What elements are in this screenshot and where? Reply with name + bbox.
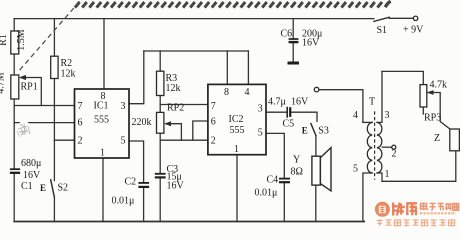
svg-text:3: 3 <box>121 101 126 112</box>
svg-text:7: 7 <box>211 101 216 112</box>
svg-text:6: 6 <box>211 117 216 128</box>
svg-text:0.01μ: 0.01μ <box>255 188 278 199</box>
svg-text:1.5M: 1.5M <box>16 29 27 51</box>
svg-text:IC1: IC1 <box>94 101 109 112</box>
svg-text:3: 3 <box>258 104 263 115</box>
svg-text:680μ: 680μ <box>21 158 41 169</box>
svg-text:4.7μ: 4.7μ <box>268 97 286 108</box>
svg-text:5: 5 <box>353 164 358 175</box>
svg-text:RP1: RP1 <box>21 82 38 93</box>
svg-text:12k: 12k <box>61 69 76 80</box>
svg-text:C4: C4 <box>267 175 279 186</box>
svg-text:0.01μ: 0.01μ <box>112 196 135 207</box>
svg-text:4.7M: 4.7M <box>0 72 7 94</box>
svg-text:4: 4 <box>245 87 250 98</box>
svg-text:1: 1 <box>100 148 105 159</box>
svg-text:555: 555 <box>94 115 109 126</box>
svg-text:2: 2 <box>78 136 83 147</box>
svg-text:Y: Y <box>293 155 300 166</box>
svg-text:IC2: IC2 <box>229 114 244 125</box>
svg-text:5: 5 <box>121 136 126 147</box>
svg-text:6: 6 <box>78 118 83 129</box>
svg-text:1: 1 <box>234 144 239 155</box>
svg-text:C1: C1 <box>21 181 33 192</box>
svg-text:R2: R2 <box>61 58 73 69</box>
svg-text:E: E <box>302 126 308 136</box>
svg-text:16V: 16V <box>302 38 320 49</box>
svg-text:12k: 12k <box>166 83 181 94</box>
svg-text:8: 8 <box>224 87 229 98</box>
svg-text:1: 1 <box>385 169 390 180</box>
svg-text:+ 9V: + 9V <box>403 25 424 36</box>
svg-text:Z: Z <box>434 133 440 144</box>
svg-text:E: E <box>40 183 46 193</box>
svg-text:R1: R1 <box>0 34 9 46</box>
svg-text:16V: 16V <box>291 97 309 108</box>
svg-text:S3: S3 <box>318 126 329 137</box>
svg-text:2: 2 <box>211 136 216 147</box>
svg-text:T: T <box>369 97 375 108</box>
svg-text:16V: 16V <box>23 170 41 181</box>
svg-text:220k: 220k <box>132 117 152 128</box>
svg-text:3: 3 <box>385 110 390 121</box>
svg-text:4.7k: 4.7k <box>430 80 448 91</box>
svg-text:16V: 16V <box>167 181 185 192</box>
svg-text:555: 555 <box>230 125 245 136</box>
svg-text:C6: C6 <box>281 29 293 40</box>
svg-text:4: 4 <box>353 110 358 121</box>
svg-text:C5: C5 <box>283 119 295 130</box>
svg-text:C2: C2 <box>125 177 137 188</box>
svg-text:RP2: RP2 <box>167 103 184 114</box>
svg-text:8Ω: 8Ω <box>291 167 303 178</box>
svg-text:7: 7 <box>78 101 83 112</box>
svg-text:5: 5 <box>258 128 263 139</box>
svg-text:RP3: RP3 <box>424 113 441 124</box>
svg-text:S1: S1 <box>377 25 388 36</box>
svg-text:S2: S2 <box>58 183 69 194</box>
svg-text:2: 2 <box>392 149 397 160</box>
